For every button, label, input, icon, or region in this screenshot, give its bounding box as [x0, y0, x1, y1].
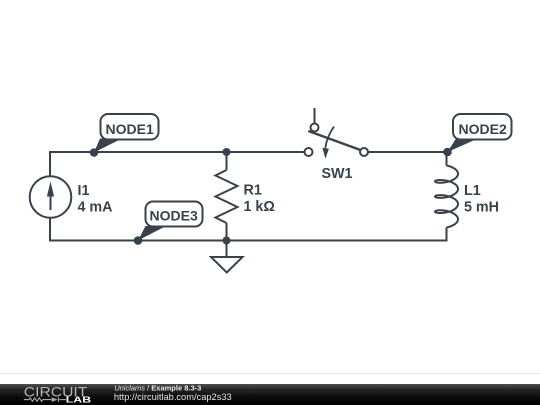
footer bar: [0, 384, 540, 405]
svg-text:4 mA: 4 mA: [78, 200, 113, 216]
svg-text:I1: I1: [78, 183, 90, 199]
node NODE1 flag: [94, 114, 159, 153]
node dot NODE1: [90, 148, 99, 157]
svg-text:NODE2: NODE2: [459, 121, 507, 137]
wire: I1 bottom lead: [49, 218, 51, 242]
wire: bottom rail from I1 to L1: [49, 240, 448, 242]
wire: top rail from I1 to SW1 left terminal: [49, 151, 305, 153]
wire: R1 top lead: [226, 152, 228, 170]
junction dot R1 top: [223, 148, 231, 156]
node NODE3 flag: [138, 202, 203, 241]
node dot NODE3: [134, 236, 143, 245]
svg-text:SW1: SW1: [322, 166, 353, 182]
wire: L1 top lead: [446, 151, 448, 166]
switch SW1: [305, 124, 369, 159]
svg-text:1 kΩ: 1 kΩ: [244, 199, 275, 215]
resistor R1: [216, 170, 238, 223]
logo diode symbol: [52, 398, 58, 403]
svg-text:NODE1: NODE1: [106, 121, 154, 137]
wire: ground lead below R1: [226, 241, 228, 258]
ground: [211, 257, 243, 273]
node NODE2 flag: [448, 114, 512, 152]
svg-text:L1: L1: [464, 183, 481, 199]
svg-text:5 mH: 5 mH: [464, 200, 499, 216]
node dot NODE2: [443, 148, 452, 157]
inductor L1: [435, 166, 458, 228]
wire: R1 bottom lead: [226, 223, 228, 241]
current source I1: [30, 176, 72, 218]
svg-text:http://circuitlab.com/cap2s33: http://circuitlab.com/cap2s33: [114, 392, 232, 402]
logo mini-schematic wire + resistor zigzag: [24, 398, 66, 403]
separator line above footer: [0, 373, 540, 374]
wire: L1 bottom lead: [446, 228, 448, 242]
svg-text:NODE3: NODE3: [150, 208, 198, 224]
svg-text:R1: R1: [244, 183, 262, 199]
junction dot R1 bottom: [223, 237, 231, 245]
wire: SW1 pole stub: [314, 108, 316, 123]
wire: I1 top lead: [49, 151, 51, 176]
wire: SW1 right terminal to L1 top: [368, 151, 448, 153]
svg-text:LAB: LAB: [66, 395, 91, 405]
